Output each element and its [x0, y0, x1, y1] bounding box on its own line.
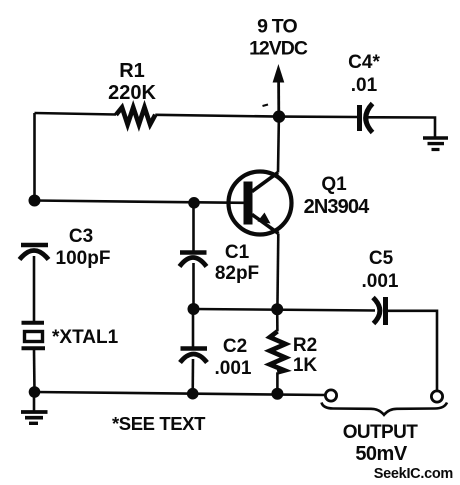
label 1K	[293, 355, 318, 376]
wire R1 to power node	[155, 115, 279, 117]
wire C2 to bottom rail	[191, 359, 194, 394]
wire power node to C4	[279, 115, 357, 118]
wire R2 to bottom rail	[276, 372, 279, 394]
output terminal left	[325, 390, 336, 401]
capacitor C3	[20, 245, 49, 260]
stray tick mark near power node	[263, 105, 269, 107]
wire mid horizontal (C1 node to C5)	[194, 309, 376, 311]
svg-text:C2: C2	[223, 336, 247, 357]
resistor R1	[116, 107, 155, 124]
label R2	[293, 335, 317, 356]
svg-text:OUTPUT: OUTPUT	[343, 422, 419, 443]
wire collector (transistor to power node)	[277, 117, 280, 173]
wire C1 to mid node	[192, 263, 195, 309]
label *SEE TEXT	[112, 413, 206, 434]
label 9 TO	[257, 16, 297, 38]
wire top-left horizontal (V+ rail left of R1)	[35, 113, 117, 115]
svg-text:50mV: 50mV	[355, 443, 408, 465]
svg-text:SeekIC.com: SeekIC.com	[374, 466, 453, 482]
svg-text:R1: R1	[119, 60, 145, 82]
label OUTPUT	[343, 422, 419, 443]
label 2N3904	[304, 196, 370, 218]
wire mid node to R2	[276, 309, 279, 331]
junction bottom right node	[271, 388, 283, 400]
svg-text:Q1: Q1	[321, 174, 347, 195]
label 220K	[108, 82, 156, 104]
wire bottom rail	[35, 392, 326, 395]
wire emitter (transistor down to mid node)	[276, 234, 279, 310]
junction power node	[273, 110, 285, 122]
svg-text:82pF: 82pF	[215, 263, 259, 284]
output terminal right	[431, 391, 442, 402]
svg-text:R2: R2	[293, 335, 317, 356]
label 82pF	[215, 263, 259, 284]
wire crystal to bottom-left node	[33, 350, 36, 392]
svg-text:C4*: C4*	[348, 52, 380, 73]
label Q1	[321, 174, 347, 195]
label .01	[351, 75, 378, 96]
transistor Q1	[229, 172, 292, 235]
svg-text:100pF: 100pF	[56, 248, 111, 269]
capacitor C2	[180, 349, 207, 363]
junction bottom mid node	[187, 388, 199, 400]
ground (bottom left)	[21, 392, 48, 423]
label C1	[225, 242, 250, 263]
capacitor C1	[180, 253, 207, 267]
brace under output	[322, 403, 448, 415]
ground (top right)	[423, 138, 448, 150]
watermark SeekIC.com	[374, 466, 453, 482]
label 12VDC	[249, 38, 308, 60]
junction mid node right	[271, 303, 283, 315]
junction bottom-left node	[29, 386, 41, 398]
svg-text:12VDC: 12VDC	[249, 38, 308, 60]
label C3	[69, 226, 93, 247]
wire middle vertical (base node to C1)	[192, 203, 195, 252]
svg-text:220K: 220K	[108, 82, 156, 104]
resistor R2	[270, 331, 286, 372]
label 50mV	[355, 443, 408, 465]
power supply arrow (9 TO 12VDC)	[273, 64, 285, 117]
label C4*	[348, 52, 380, 73]
svg-text:.001: .001	[362, 271, 399, 292]
wire base (left node to transistor base)	[35, 201, 244, 203]
junction base node left	[29, 195, 41, 207]
wire C5 to right output terminal	[388, 311, 437, 390]
wire mid node to C2	[192, 309, 195, 348]
wire left vertical (top corner down to base node)	[33, 113, 36, 201]
svg-text:C5: C5	[369, 248, 394, 269]
svg-text:C1: C1	[225, 242, 250, 263]
wire C4 to top-right ground	[366, 117, 435, 136]
label C2	[223, 336, 247, 357]
label .001 (C5)	[362, 271, 399, 292]
capacitor C4	[360, 104, 373, 133]
wire C3 to crystal	[33, 256, 36, 322]
svg-text:9 TO: 9 TO	[257, 16, 297, 38]
label .001 (C2)	[215, 358, 252, 379]
junction base node middle	[188, 197, 200, 209]
svg-text:*XTAL1: *XTAL1	[52, 327, 119, 348]
capacitor C5	[373, 297, 386, 325]
svg-text:.001: .001	[215, 358, 252, 379]
svg-text:.01: .01	[351, 75, 378, 96]
crystal XTAL1	[22, 323, 46, 349]
label *XTAL1	[52, 327, 119, 348]
label R1	[119, 60, 145, 82]
label 100pF	[56, 248, 111, 269]
svg-text:1K: 1K	[293, 355, 318, 376]
svg-text:C3: C3	[69, 226, 93, 247]
svg-text:*SEE TEXT: *SEE TEXT	[112, 413, 206, 434]
svg-text:2N3904: 2N3904	[304, 196, 370, 218]
label C5	[369, 248, 394, 269]
junction mid node left	[188, 303, 200, 315]
